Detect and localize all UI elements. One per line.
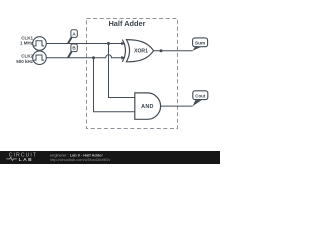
AND gate AND1 (135, 93, 161, 119)
net flag Sum (192, 38, 207, 51)
junction on Sum wire (160, 49, 163, 52)
node flag B (68, 44, 77, 58)
arrowhead at XOR1 bottom input (121, 56, 125, 60)
footer bar (0, 151, 220, 164)
svg-text:Half Adder: Half Adder (108, 19, 145, 28)
arrowhead at XOR1 top input (121, 42, 125, 46)
wire CLK1 to XOR1 input A (46, 43, 123, 45)
svg-text:1 MHz: 1 MHz (20, 41, 34, 46)
wire CLK2 to XOR1 input B (with hop over vertical) (46, 55, 123, 58)
junction on wire A (107, 42, 110, 45)
subcircuit box Half Adder (87, 19, 178, 129)
junction on wire B (92, 56, 95, 59)
clock source CLK2 (16, 51, 46, 65)
svg-text:LAB: LAB (19, 157, 34, 163)
XOR gate XOR1 (122, 40, 153, 62)
svg-text:AND: AND (141, 104, 153, 110)
wire from junction B down to AND1 bottom input (94, 58, 135, 112)
svg-text:500 kHz: 500 kHz (16, 59, 34, 64)
net flag Cout (193, 91, 208, 107)
wire AND1 output to Cout (161, 105, 193, 107)
wire from junction A down to AND1 top input (109, 44, 135, 98)
svg-text:Cout: Cout (195, 94, 206, 99)
svg-text:http://circuitlab.com/c/5hw43k: http://circuitlab.com/c/5hw43kx5f2v (50, 157, 110, 162)
node flag A (68, 30, 77, 44)
svg-text:Sum: Sum (195, 41, 205, 47)
svg-text:XOR1: XOR1 (134, 49, 148, 55)
wire XOR1 output to Sum (154, 50, 193, 52)
clock source CLK1 (20, 36, 46, 51)
